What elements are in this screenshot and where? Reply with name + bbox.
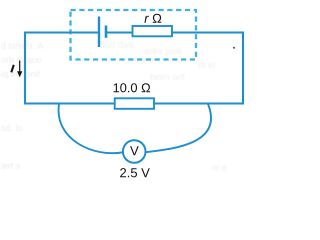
svg-text:dlud dasl: dlud dasl: [98, 40, 134, 50]
wire: resistor 10.0 to bottom-right corner: [154, 102, 244, 104]
label 2.5 V: [120, 168, 150, 177]
label r Ω: [144, 14, 161, 23]
svg-text:ot el: ot el: [198, 60, 215, 70]
voltmeter V1: [123, 140, 146, 163]
wire: right arc to voltmeter: [146, 104, 211, 152]
svg-text:orb to ano: orb to ano: [1, 55, 42, 65]
wire: resistor r to top-right corner and down right side: [172, 33, 243, 104]
svg-text:beirn orlt: beirn orlt: [150, 72, 186, 82]
svg-text:d tshied .A: d tshied .A: [1, 41, 44, 51]
svg-text:eslni paib: eslni paib: [144, 46, 182, 56]
voltmeter letter V: [130, 146, 139, 155]
battery B1 (cell, long and short plates): [99, 17, 106, 48]
resistor r (internal resistance): [133, 26, 173, 36]
wire: battery to resistor r: [107, 31, 133, 33]
svg-text:sd. lo: sd. lo: [1, 123, 23, 133]
wire: top-left segment from corner to battery: [25, 33, 98, 104]
dashed box (battery + internal resistance enclosure): [71, 10, 197, 60]
svg-text:iert s: iert s: [1, 161, 21, 171]
wire: bottom-left segment to resistor 10.0: [24, 102, 115, 104]
current arrow: [17, 61, 22, 78]
resistor R1 10.0 ohm: [115, 98, 154, 109]
svg-text:nl d: nl d: [212, 163, 227, 173]
current label I: [11, 65, 14, 73]
label 10.0 Ω: [114, 83, 151, 92]
wire: left arc to voltmeter: [59, 104, 123, 153]
